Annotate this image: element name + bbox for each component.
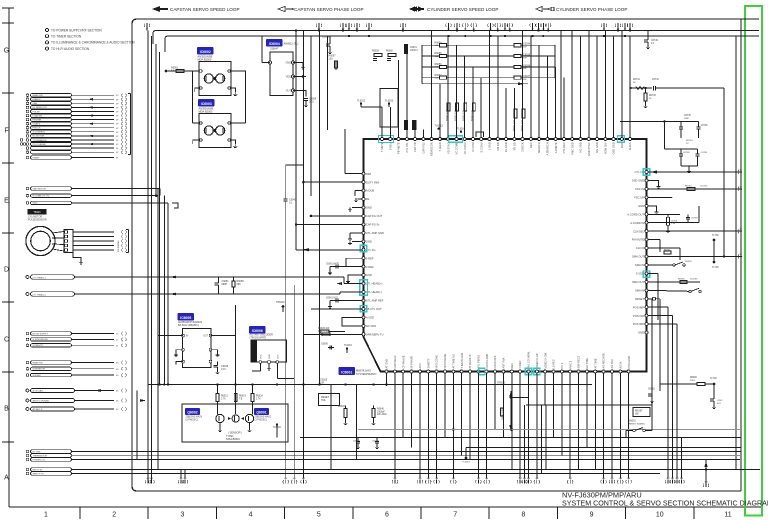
svg-text:RESET SW(BK): RESET SW(BK) — [629, 423, 645, 425]
wire: CYL FG feed with arrow — [296, 249, 362, 251]
wire: left bus drop 2 — [151, 36, 153, 481]
svg-text:2F PHASE: 2F PHASE — [410, 356, 414, 369]
legend: cylinder servo phase loop arrow — [536, 6, 554, 11]
svg-text:180P: 180P — [684, 118, 690, 120]
svg-text:TO HI-FI AUDIO SECTION: TO HI-FI AUDIO SECTION — [51, 47, 90, 51]
svg-text:CTL HEAD(+): CTL HEAD(+) — [33, 276, 47, 279]
svg-text:4F: 4F — [116, 99, 119, 101]
svg-text:ALIGN: ALIGN — [628, 142, 632, 150]
svg-text:SAFETY: SAFETY — [426, 358, 430, 368]
svg-text:4F: 4F — [116, 124, 119, 126]
cylinder motor stator coil (toroid) — [26, 226, 55, 255]
svg-text:1: 1 — [44, 512, 48, 519]
svg-text:UNREG: UNREG — [33, 99, 41, 101]
svg-text:C6735: C6735 — [684, 115, 691, 117]
resistor R6732 to ground — [645, 88, 647, 93]
svg-text:4M: 4M — [477, 478, 480, 480]
svg-text:100/6.3: 100/6.3 — [410, 50, 418, 52]
svg-text:IC6005: IC6005 — [180, 316, 191, 320]
svg-text:SSD GND: SSD GND — [632, 179, 644, 183]
svg-text:TU SW/AUDIO: TU SW/AUDIO — [33, 139, 48, 142]
connector group A row second (2 pills) — [26, 468, 29, 471]
schematic sheet border — [132, 19, 759, 491]
svg-text:4P: 4P — [116, 103, 119, 105]
svg-text:ANT IN/A: ANT IN/A — [502, 357, 506, 368]
capacitor C6040 mid-left — [285, 165, 287, 196]
svg-text:EC MOTOR: EC MOTOR — [33, 136, 45, 138]
svg-text:POS IMP: POS IMP — [633, 305, 644, 309]
svg-text:DG GND: DG GND — [595, 142, 599, 153]
svg-text:9: 9 — [590, 512, 594, 519]
wire: left-of-IC vertical pair down — [339, 196, 341, 277]
svg-text:TL6015: TL6015 — [385, 100, 394, 103]
circled pin numbers left of CN6001 — [20, 139, 23, 142]
svg-text:A.CORD OUT: A.CORD OUT — [627, 212, 644, 216]
svg-text:OSD GND: OSD GND — [612, 142, 616, 154]
svg-text:MD 8080B1: MD 8080B1 — [118, 240, 120, 252]
svg-text:4M: 4M — [523, 478, 526, 480]
svg-text:POS IND: POS IND — [633, 314, 644, 318]
svg-text:4P: 4P — [116, 128, 119, 130]
wire: TL6012/TL6011 taps to pins 1-2 — [360, 104, 362, 107]
svg-text:C6021: C6021 — [410, 47, 417, 49]
wire: gray service lines lower — [358, 429, 740, 431]
svg-text:4T: 4T — [116, 345, 119, 347]
transistor Q6002 — [216, 414, 224, 422]
capstan motor drive IC IC6002 label — [198, 48, 214, 55]
svg-text:S B REC: S B REC — [33, 375, 42, 377]
wire: fourth stub drop from service line — [681, 438, 683, 479]
svg-text:AD VDD: AD VDD — [366, 324, 376, 328]
svg-text:CF PHASE: CF PHASE — [401, 355, 405, 368]
svg-text:VIDEO X GW: VIDEO X GW — [543, 352, 547, 368]
svg-text:R6732: R6732 — [649, 95, 656, 97]
svg-text:BA 5912 (FB2/RC): BA 5912 (FB2/RC) — [178, 324, 199, 327]
svg-text:TL6013: TL6013 — [435, 125, 444, 128]
svg-text:4M: 4M — [418, 478, 421, 480]
svg-text:FWD/BR: FWD/BR — [33, 119, 42, 121]
IC6005 body — [183, 329, 212, 368]
svg-text:CAP VD: CAP VD — [413, 142, 417, 152]
wire: A row lower long lines — [72, 469, 761, 471]
svg-text:T.B: T.B — [239, 398, 243, 400]
wire: TR6001 branch to pin bus — [511, 397, 529, 399]
svg-text:E01: E01 — [717, 403, 722, 405]
svg-text:CYLINDER SERVO SPEED LOOP: CYLINDER SERVO SPEED LOOP — [427, 7, 498, 12]
wire: 447 service line right half — [466, 447, 741, 449]
polarized capacitor C6021 (bold bar) — [404, 45, 407, 54]
svg-text:4M: 4M — [619, 478, 622, 480]
svg-text:S SYNC/MONO: S SYNC/MONO — [33, 339, 49, 341]
svg-text:FSC IN: FSC IN — [635, 187, 644, 191]
svg-text:C64C: C64C — [717, 400, 723, 402]
transformer T6001 label box (black) — [28, 210, 46, 215]
border frame: outer coordinate grid — [8, 8, 10, 507]
junction dots on top buses — [295, 29, 297, 31]
svg-text:E: E — [4, 198, 9, 205]
wire: left bus lower stubs — [180, 469, 182, 479]
capacitor C6009 at IC6004 — [304, 98, 308, 100]
junction arrows on CN6001 harness — [88, 98, 93, 100]
wire: small step between top pins — [476, 132, 483, 137]
wire: verticals down from right pins to bottom — [657, 320, 659, 443]
wire: loop rail down to pins — [619, 36, 621, 121]
loading motor drive IC IC6005 label — [178, 314, 194, 321]
wire: A VDD / AD VDD loops — [342, 317, 362, 325]
svg-text:CTL HEAD(-): CTL HEAD(-) — [33, 293, 46, 296]
svg-text:A CB CALL: A CB CALL — [33, 390, 45, 393]
svg-text:4M: 4M — [519, 478, 522, 480]
svg-text:VDD: VDD — [286, 76, 291, 79]
reset switch S6001 — [633, 408, 650, 417]
svg-text:4M: 4M — [671, 478, 674, 480]
connector group C row lower (3 pills) — [26, 361, 29, 364]
pin highlight: bottom pin VIDEO X GP — [479, 368, 485, 374]
svg-text:4F: 4F — [116, 132, 119, 134]
svg-text:680: 680 — [237, 283, 242, 286]
svg-text:8: 8 — [521, 512, 525, 519]
legend: capstan servo speed loop arrow — [152, 6, 168, 12]
svg-text:4M: 4M — [302, 478, 305, 480]
wire: left bus drop 3 — [155, 44, 157, 196]
IC6001 left edge pins with labels — [362, 172, 384, 337]
svg-text:5: 5 — [317, 512, 321, 519]
svg-text:0.01: 0.01 — [309, 100, 314, 103]
end sensor transistor Q6001 label — [255, 409, 269, 415]
svg-text:IC6004: IC6004 — [269, 42, 280, 46]
capacitor C6062 on UTL AMP REF — [330, 299, 362, 301]
svg-text:IC6001: IC6001 — [341, 370, 352, 374]
svg-text:100: 100 — [329, 57, 334, 60]
resistor R6757 2.4k on A.CORD — [667, 217, 670, 225]
svg-text:ASSY/C PDN/AL: ASSY/C PDN/AL — [33, 400, 50, 403]
svg-text:10K: 10K — [320, 381, 325, 384]
svg-text:90: 90 — [649, 98, 652, 100]
svg-text:2: 2 — [112, 512, 116, 519]
photo sensor pair — [232, 415, 239, 422]
svg-text:56P: 56P — [523, 68, 527, 70]
resistors R6059/R6060 pair above IC — [374, 54, 382, 57]
wire: right pin horizontal runs — [648, 171, 736, 173]
wire: RESET run — [648, 298, 652, 300]
svg-text:4S: 4S — [116, 401, 119, 403]
wire: PB CTL OUT run — [311, 308, 362, 310]
resistor R6029 10K horizontal — [320, 330, 329, 333]
svg-text:T LEAD: T LEAD — [438, 142, 442, 151]
svg-text:A.CORD IN: A.CORD IN — [630, 221, 644, 225]
svg-text:3 DECK: 3 DECK — [521, 142, 525, 152]
CN6001 harness gathering bracket — [130, 94, 132, 155]
pin highlight: left pin CYL FG — [360, 245, 366, 251]
svg-text:4M: 4M — [179, 478, 182, 480]
svg-text:R6046: R6046 — [377, 409, 384, 411]
wire: FSC loop right vertical — [723, 88, 725, 257]
svg-text:SW: SW — [635, 414, 640, 416]
resistor R6766 pullup — [680, 280, 687, 283]
svg-text:CAP FG2: CAP FG2 — [421, 142, 425, 154]
svg-text:OUT: OUT — [286, 90, 292, 93]
svg-text:S6001: S6001 — [629, 421, 636, 423]
svg-text:MDA B2000: MDA B2000 — [199, 109, 213, 113]
svg-text:4M: 4M — [610, 478, 613, 480]
svg-text:3300pF: 3300pF — [377, 411, 385, 413]
wire: CTL head + line — [75, 276, 345, 278]
svg-text:SERV P TP: SERV P TP — [33, 473, 45, 475]
svg-text:C6738: C6738 — [683, 152, 690, 154]
svg-text:TO ILLUMINANCE & CHROMINANCE &: TO ILLUMINANCE & CHROMINANCE & AUDIO SEC… — [51, 41, 135, 45]
wire: verticals from 405 bus to stubs — [541, 405, 543, 474]
polarized capacitor C6023 (bold bar) — [413, 121, 416, 130]
resistor R6070 on VAR/SERV — [304, 333, 363, 335]
green revision highlight box — [745, 6, 762, 516]
svg-text:AT BACK IN: AT BACK IN — [468, 354, 472, 368]
svg-text:(3 PH/2SC): (3 PH/2SC) — [255, 418, 267, 421]
svg-text:UTL HEAD(+): UTL HEAD(+) — [366, 282, 383, 286]
wire: left bus drop 1 — [147, 31, 149, 482]
wire: 470 line to right edge — [469, 468, 760, 470]
wire: SMA group with components — [648, 256, 736, 258]
IC6005 ground hooks — [176, 350, 183, 353]
svg-text:FE: FE — [366, 197, 370, 201]
svg-text:TR6010: TR6010 — [276, 301, 285, 304]
svg-text:R6059: R6059 — [372, 51, 379, 53]
wire: left bus drop 3b feed to IC6005 — [157, 189, 159, 470]
motor harness bracket — [128, 230, 130, 253]
svg-text:2SB/4T: 2SB/4T — [270, 47, 279, 51]
wire: horizontal connect at y165 — [286, 164, 304, 166]
svg-text:4F: 4F — [116, 107, 119, 109]
svg-text:AT TIME NG: AT TIME NG — [451, 354, 455, 369]
svg-text:AT GND: AT GND — [385, 359, 389, 369]
svg-text:4F: 4F — [116, 140, 119, 142]
svg-text:GND: GND — [366, 273, 372, 277]
wire: horizontal bus through B row — [148, 384, 592, 386]
svg-text:CAP FG IN: CAP FG IN — [366, 223, 379, 227]
svg-text:S FIND/TIL: S FIND/TIL — [33, 345, 45, 347]
svg-text:680P: 680P — [222, 283, 228, 286]
svg-text:LOAD MT: LOAD MT — [33, 114, 43, 117]
svg-text:4M: 4M — [150, 478, 153, 480]
resistors R6051/R6052 vertical right pair — [514, 109, 517, 118]
capacitor C6045 at IC6005 out — [217, 362, 219, 366]
wire: IC6006 vcc/out runs — [259, 363, 261, 371]
svg-text:56P: 56P — [523, 79, 527, 81]
pin highlight: top pin HSW 25V — [618, 136, 625, 142]
svg-text:PC 1: PC 1 — [560, 362, 564, 368]
svg-text:VCC: VCC — [260, 354, 262, 359]
svg-text:4F: 4F — [740, 254, 743, 256]
svg-text:4: 4 — [249, 512, 253, 519]
svg-text:RIM: RIM — [366, 172, 372, 176]
svg-text:OUT: OUT — [203, 336, 208, 338]
svg-text:HSW 25V: HSW 25V — [603, 142, 607, 154]
capacitor C6049 top right — [647, 31, 649, 41]
svg-text:REC/Y IN: REC/Y IN — [33, 469, 43, 471]
svg-text:FM MUTE: FM MUTE — [632, 238, 644, 242]
wire: top connector stubs row — [146, 23, 148, 27]
svg-text:T MUTE: T MUTE — [380, 142, 384, 152]
svg-text:GND: GND — [366, 239, 372, 243]
svg-text:SMA IN: SMA IN — [635, 288, 644, 292]
wire: top horizontal bus 1 — [153, 31, 759, 45]
sensor block outline — [182, 404, 288, 442]
wire: staircase feeds into IC left pins — [345, 173, 362, 175]
svg-text:VIDEO X GP: VIDEO X GP — [535, 353, 539, 368]
svg-text:4S: 4S — [116, 375, 119, 377]
resistor R6024 2.7K — [251, 394, 254, 402]
svg-text:AT TIME: AT TIME — [593, 358, 597, 368]
single pill below CN6001 block — [26, 156, 29, 159]
svg-text:4M: 4M — [284, 478, 287, 480]
svg-text:11: 11 — [724, 512, 731, 519]
svg-text:C6734: C6734 — [652, 79, 659, 81]
svg-text:R6734: R6734 — [633, 79, 640, 81]
svg-text:CTL STL: CTL STL — [405, 142, 409, 153]
svg-text:(TR DOU/FRT): (TR DOU/FRT) — [250, 336, 267, 339]
svg-text:POS IMP: POS IMP — [633, 322, 644, 326]
svg-text:TR6001: TR6001 — [497, 382, 506, 385]
connector CN6001 pin row block (F row) — [26, 94, 126, 155]
motor connector block — [64, 230, 73, 253]
svg-text:4S: 4S — [116, 369, 119, 371]
pin highlight: top pins 1-2 — [379, 136, 394, 143]
wire: right frame connector stub — [705, 460, 707, 484]
capacitors C6024/C6026 below resistor pair — [373, 58, 377, 60]
svg-text:T BACK GND: T BACK GND — [460, 353, 464, 369]
wire: resistor network horizontal rails — [422, 44, 440, 46]
svg-text:A: A — [4, 475, 9, 482]
svg-text:THERMISTOR: THERMISTOR — [33, 455, 48, 457]
capacitor C6061 on V REF — [330, 266, 346, 268]
svg-text:TL736: TL736 — [712, 235, 719, 237]
svg-text:IC6002: IC6002 — [200, 50, 211, 54]
svg-text:4S: 4S — [116, 391, 119, 393]
junction arrow on 470 line — [704, 461, 707, 467]
svg-text:AN TEC: AN TEC — [610, 359, 614, 369]
wire: CYL FG feed vertical from top bus — [295, 31, 297, 250]
svg-text:4F: 4F — [116, 148, 119, 150]
wire: CTL head - line — [75, 293, 341, 295]
svg-text:Q6002: Q6002 — [187, 410, 197, 414]
svg-text:TO TIMER SECTION: TO TIMER SECTION — [51, 35, 82, 39]
IC6001 reference label — [339, 368, 355, 375]
wire: POS lines turning down — [648, 306, 668, 308]
svg-text:( SENSOR ): ( SENSOR ) — [228, 431, 242, 435]
svg-text:SYSTEM/SERVO: SYSTEM/SERVO — [356, 372, 376, 376]
svg-text:A VDD: A VDD — [366, 315, 374, 319]
svg-text:4M: 4M — [602, 478, 605, 480]
svg-text:S MONITOR: S MONITOR — [33, 369, 46, 371]
svg-text:TL6750: TL6750 — [700, 186, 708, 188]
svg-text:4M: 4M — [527, 478, 530, 480]
svg-text:R6024: R6024 — [256, 396, 263, 398]
svg-text:FG/CLK: FG/CLK — [33, 128, 41, 130]
svg-text:4M: 4M — [680, 478, 683, 480]
svg-text:IC COM: IC COM — [471, 142, 475, 151]
svg-text:0 REF: 0 REF — [366, 256, 374, 260]
svg-text:TO POWER SUPPLY/RF SECTION: TO POWER SUPPLY/RF SECTION — [51, 28, 102, 32]
svg-text:S REV: S REV — [388, 142, 392, 150]
svg-text:HEAD SW: HEAD SW — [33, 361, 44, 364]
svg-text:A SEARCH: A SEARCH — [546, 142, 550, 155]
pin highlight: right pin CYL FG — [643, 169, 649, 175]
svg-text:C6019: C6019 — [322, 36, 330, 39]
svg-text:IC6006: IC6006 — [252, 329, 263, 333]
svg-text:R6060: R6060 — [386, 51, 393, 53]
svg-text:J AMUTE: J AMUTE — [554, 142, 558, 153]
wire: IC6004 input from top bus — [262, 62, 270, 64]
svg-text:REC: REC — [529, 142, 533, 148]
svg-text:R6734: R6734 — [686, 140, 693, 142]
svg-text:REMOCON: REMOCON — [430, 142, 434, 156]
switch contact S6001 — [633, 429, 635, 431]
wire: left bus drop 6 — [167, 208, 169, 385]
svg-text:CYL REV: CYL REV — [562, 142, 566, 153]
svg-text:DOC: DOC — [620, 142, 624, 148]
svg-text:R6019: R6019 — [239, 396, 246, 398]
bottom connector stubs for left bus — [147, 478, 149, 481]
svg-text:CLK/SEL: CLK/SEL — [633, 229, 645, 233]
svg-text:CAP FG OUT: CAP FG OUT — [366, 214, 383, 218]
switch S6752 — [689, 290, 691, 292]
wire: right edge long verticals — [651, 299, 653, 431]
svg-text:D: D — [4, 267, 9, 274]
svg-text:DUTY RIM: DUTY RIM — [366, 180, 380, 184]
svg-text:AS IN: AS IN — [618, 362, 622, 369]
svg-text:90: 90 — [633, 82, 636, 84]
svg-text:N REC: N REC — [518, 360, 522, 368]
svg-text:IN: IN — [186, 336, 189, 338]
svg-text:1.4k: 1.4k — [671, 223, 676, 225]
svg-text:0.1: 0.1 — [651, 43, 655, 45]
resistor R6068 bridging ctl lines — [233, 277, 235, 281]
notes: section destination legend — [45, 28, 48, 31]
motor winding leads — [52, 232, 64, 252]
svg-text:NFS CONE: NFS CONE — [435, 355, 439, 369]
svg-text:PULSE: PULSE — [33, 111, 41, 113]
svg-text:SYSTEM CONTROL & SERVO SECTION: SYSTEM CONTROL & SERVO SECTION SCHEMATIC… — [562, 500, 768, 508]
svg-text:MDA B2000: MDA B2000 — [198, 57, 212, 61]
wire: right rail verticals — [554, 45, 556, 77]
wire: reset line to right — [660, 383, 697, 385]
IC6006 pins VCC GND OUT — [259, 361, 262, 364]
svg-text:TL739: TL739 — [710, 378, 717, 380]
svg-text:C6745: C6745 — [701, 152, 708, 154]
svg-text:BT VHS: BT VHS — [33, 451, 41, 453]
svg-text:4F: 4F — [116, 116, 119, 118]
svg-text:GND: GND — [366, 206, 372, 210]
svg-text:4M: 4M — [704, 481, 707, 483]
transistor Q6001 — [245, 414, 253, 422]
wire: vertical drops from top stubs — [146, 27, 148, 31]
svg-text:4F: 4F — [740, 170, 743, 172]
IC6001 top edge pins with labels — [380, 138, 632, 157]
svg-text:SMA OUT: SMA OUT — [632, 255, 644, 259]
svg-text:4F: 4F — [116, 158, 119, 160]
svg-text:4P: 4P — [116, 136, 119, 138]
wire: IC6005 in/out — [158, 335, 183, 337]
capacitor pair C6738/C6745 — [663, 121, 665, 149]
IC6003 pin wires — [229, 140, 235, 144]
svg-text:T6001: T6001 — [33, 210, 41, 214]
ground hook on GND pin below V REF — [348, 275, 362, 279]
svg-text:4M: 4M — [535, 478, 538, 480]
svg-text:0.1: 0.1 — [289, 201, 293, 204]
svg-text:VCAP 5: VCAP 5 — [33, 122, 42, 125]
svg-text:CASS LAMP: CASS LAMP — [485, 353, 489, 368]
resistor R6028 — [344, 409, 347, 418]
svg-text:GND SYNC: GND SYNC — [587, 142, 591, 156]
